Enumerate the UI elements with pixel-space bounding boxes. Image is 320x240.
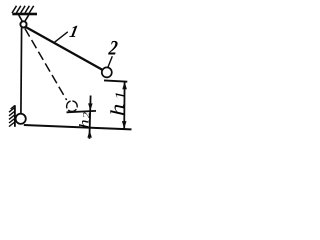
dashed rod (intermediate position) — [25, 28, 67, 100]
ground baseline — [24, 125, 132, 129]
ball lowest position — [16, 114, 26, 124]
label h2 (rotated) — [77, 111, 92, 128]
leader line for label 1 — [53, 32, 68, 43]
svg-text:h2: h2 — [77, 111, 92, 128]
arrowhead h2 lower (up, outside) — [87, 130, 92, 137]
support triangle legs — [19, 15, 29, 22]
dimension line h2 — [89, 96, 90, 139]
ceiling bar — [12, 13, 37, 16]
ball 2 (raised) — [102, 67, 112, 77]
ball intermediate position (outline) — [67, 101, 78, 112]
wall hatch — [9, 106, 15, 127]
label 1 — [68, 22, 80, 41]
wall bracket line — [14, 105, 16, 127]
pivot hinge circle — [20, 21, 26, 27]
arrowhead h2 upper (down, outside) — [88, 103, 93, 110]
svg-text:h1: h1 — [106, 91, 128, 116]
arrowhead h1 top (up) — [122, 82, 127, 90]
rod 1 (raised position) — [26, 27, 103, 70]
extension line at ball 2 level — [104, 80, 127, 81]
svg-text:1: 1 — [68, 22, 80, 41]
extension line at intermediate ball level — [67, 111, 97, 112]
label h1 (rotated) — [106, 91, 128, 116]
leader line for label 2 — [108, 56, 112, 67]
rod vertical position — [20, 28, 23, 114]
svg-text:2: 2 — [107, 37, 119, 60]
ceiling hatch — [12, 6, 34, 13]
arrowhead h1 bottom (down) — [122, 121, 127, 129]
dimension line h1 — [123, 82, 125, 129]
label 2 — [107, 37, 119, 60]
